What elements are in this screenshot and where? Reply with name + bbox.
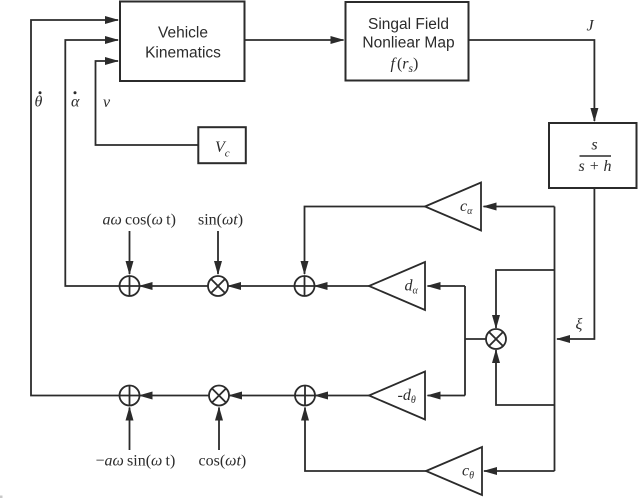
wire: theta-dot feedback from sum S3 up to Vehicle Kinematics input 1 — [31, 20, 120, 396]
multiplier M2 (theta row middle) — [209, 386, 229, 406]
svg-text:s: s — [591, 137, 597, 154]
wire: a*w*cos(wt) down into sum S1 top — [129, 231, 131, 274]
svg-text:θ: θ — [35, 94, 43, 111]
block: Singal Field Nonliear Map box — [346, 2, 469, 81]
wire: bus lower tap into multiplier M3 bottom — [496, 350, 555, 405]
svg-text:ξ: ξ — [576, 316, 583, 333]
gain d_alpha triangle — [369, 262, 425, 310]
wire: middle bus vertical between d_alpha and -d_theta rows — [464, 286, 466, 396]
wire: -d_theta output into sum S4 right — [315, 395, 369, 397]
wire: middle bus into -d_theta input — [428, 395, 466, 397]
svg-text:J: J — [587, 18, 595, 35]
gain c_alpha triangle — [425, 183, 481, 231]
wire: cos(wt) up into multiplier M2 bottom — [218, 408, 220, 451]
label: theta-dot — [35, 91, 43, 110]
block: s/(s+h) filter box — [549, 123, 637, 188]
wire: Vehicle Kinematics output to Singal Field box — [245, 39, 344, 41]
multiplier M3 (xi product) — [486, 329, 506, 349]
label: s over s+h fraction — [578, 137, 611, 176]
label: J — [587, 18, 595, 35]
svg-text:cos(ωt): cos(ωt) — [199, 453, 247, 470]
wire: s/(s+h) output down then left (xi) into right bus — [557, 189, 594, 339]
stray scan mark bottom-left corner — [0, 496, 3, 498]
svg-text:sin(ωt): sin(ωt) — [198, 212, 243, 229]
label: Singal Field Nonliear Map text — [362, 16, 454, 52]
svg-text:−aω sin(ω t): −aω sin(ω t) — [96, 453, 176, 470]
svg-text:Nonliear Map: Nonliear Map — [362, 35, 454, 52]
svg-text:α: α — [71, 94, 80, 111]
label: alpha-dot — [71, 91, 80, 110]
label: Vc — [215, 139, 230, 160]
label: c_theta — [462, 463, 474, 482]
summing junction S1 (alpha row left) — [120, 276, 140, 296]
svg-text:aω cos(ω t): aω cos(ω t) — [103, 212, 176, 229]
wire: -a*w*sin(wt) up into sum S3 bottom — [129, 408, 131, 451]
wire: c_alpha output left then down into sum S2 top — [305, 207, 426, 275]
label: Vehicle Kinematics text — [145, 25, 221, 62]
wire: v from Vc box to Vehicle Kinematics input 3 — [96, 61, 199, 145]
svg-text:s + h: s + h — [578, 158, 611, 175]
wire: sum S2 output into multiplier M1 — [228, 285, 295, 287]
gain -d_theta triangle — [369, 372, 425, 420]
wire: bus upper tap into multiplier M3 top — [496, 270, 555, 328]
summing junction S2 (alpha row right) — [295, 276, 315, 296]
label: -a w sin(w t) — [96, 453, 176, 470]
label: c_alpha — [460, 198, 473, 217]
wire: bus to c_alpha input — [484, 206, 555, 208]
wire: middle bus into d_alpha input — [428, 285, 466, 287]
wire: bus to c_theta input — [484, 470, 555, 472]
wire: right vertical bus from c_alpha level down to c_theta level — [554, 207, 556, 472]
label: sin(wt) — [198, 212, 243, 229]
wire: sum S4 output into multiplier M2 — [229, 395, 295, 397]
summing junction S3 (theta row left) — [120, 386, 140, 406]
svg-text:f(rs): f(rs) — [391, 56, 419, 76]
block: Vc box — [198, 127, 246, 163]
wire: alpha-dot feedback from sum S1 up to Vehicle Kinematics input 2 — [65, 40, 119, 286]
svg-text:Singal Field: Singal Field — [368, 16, 449, 33]
label: cos(wt) — [199, 453, 247, 470]
label: -d_theta — [398, 387, 416, 406]
label: a w cos(w t) — [103, 212, 176, 229]
svg-text:Vehicle: Vehicle — [158, 25, 208, 42]
wire: multiplier M1 output into sum S1 — [140, 285, 209, 287]
block: Vehicle Kinematics box — [120, 2, 245, 82]
svg-text:v: v — [103, 94, 111, 111]
wire: d_alpha output into sum S2 right — [315, 285, 370, 287]
multiplier M1 (alpha row middle) — [208, 276, 228, 296]
svg-text:Kinematics: Kinematics — [145, 45, 221, 62]
wire: multiplier M2 output into sum S3 — [140, 395, 210, 397]
gain c_theta triangle — [426, 447, 482, 495]
label: f(r_s) — [391, 56, 419, 76]
summing junction S4 (theta row right) — [295, 386, 315, 406]
wire: c_theta output left then up into sum S4 bottom — [305, 408, 426, 472]
wire: Singal Field output J down into s/(s+h) box — [469, 40, 595, 121]
wire: sin(wt) down into multiplier M1 top — [217, 231, 219, 274]
wire: multiplier M3 output left to middle bus — [465, 338, 486, 340]
label: v — [103, 94, 111, 111]
label: xi — [576, 316, 583, 333]
label: d_alpha — [405, 277, 419, 296]
